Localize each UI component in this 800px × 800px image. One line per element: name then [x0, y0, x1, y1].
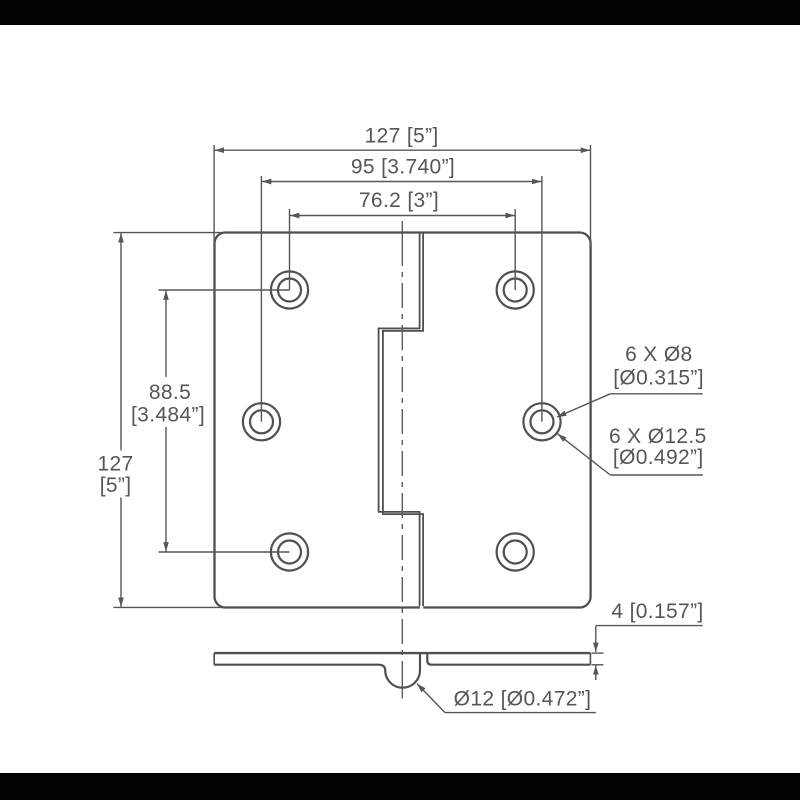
svg-text:[3.484”]: [3.484”]	[131, 404, 205, 427]
svg-text:76.2 [3”]: 76.2 [3”]	[359, 189, 439, 212]
svg-text:6 X Ø8: 6 X Ø8	[625, 343, 692, 366]
svg-text:6 X Ø12.5: 6 X Ø12.5	[609, 425, 707, 448]
svg-text:95 [3.740”]: 95 [3.740”]	[351, 156, 455, 179]
svg-text:127: 127	[97, 452, 133, 475]
svg-text:4 [0.157”]: 4 [0.157”]	[611, 600, 703, 623]
svg-text:127 [5”]: 127 [5”]	[365, 124, 439, 147]
svg-text:88.5: 88.5	[149, 381, 191, 404]
svg-text:Ø12 [Ø0.472”]: Ø12 [Ø0.472”]	[454, 688, 592, 711]
svg-text:[Ø0.315”]: [Ø0.315”]	[613, 366, 704, 389]
svg-text:[5”]: [5”]	[100, 474, 132, 497]
svg-text:[Ø0.492”]: [Ø0.492”]	[613, 446, 704, 469]
